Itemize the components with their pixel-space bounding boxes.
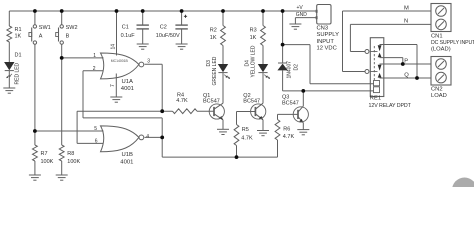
svg-text:U1B: U1B xyxy=(122,152,134,158)
svg-text:CN1: CN1 xyxy=(431,34,443,40)
svg-text:4.7K: 4.7K xyxy=(176,98,188,104)
svg-text:SW2: SW2 xyxy=(66,25,78,31)
svg-text:1K: 1K xyxy=(210,35,217,41)
svg-text:GREEN LED: GREEN LED xyxy=(212,56,218,85)
svg-text:R7: R7 xyxy=(41,151,48,157)
svg-text:Q: Q xyxy=(404,72,409,78)
svg-text:YELLOW LED: YELLOW LED xyxy=(250,45,256,77)
svg-text:12 VDC: 12 VDC xyxy=(317,46,337,52)
svg-text:1N4007: 1N4007 xyxy=(286,61,292,79)
svg-text:0.1uF: 0.1uF xyxy=(121,33,136,39)
svg-text:6: 6 xyxy=(95,139,98,145)
svg-text:4001: 4001 xyxy=(120,159,133,165)
svg-text:R2: R2 xyxy=(210,28,217,34)
svg-text:10uF/50V: 10uF/50V xyxy=(156,33,180,39)
svg-text:P: P xyxy=(404,58,408,64)
svg-text:4.7K: 4.7K xyxy=(241,136,253,142)
svg-text:R5: R5 xyxy=(242,127,249,133)
svg-text:1: 1 xyxy=(93,53,96,59)
svg-text:U1A: U1A xyxy=(122,79,134,85)
svg-text:D2: D2 xyxy=(293,64,299,71)
svg-text:BC547: BC547 xyxy=(282,100,299,106)
svg-text:C2: C2 xyxy=(160,25,167,31)
svg-text:7: 7 xyxy=(110,84,116,87)
svg-text:MC14001B: MC14001B xyxy=(111,59,129,63)
svg-text:3: 3 xyxy=(147,59,150,65)
svg-text:B: B xyxy=(66,34,70,40)
svg-text:4001: 4001 xyxy=(121,86,134,92)
svg-text:A: A xyxy=(39,34,43,40)
svg-text:D1: D1 xyxy=(15,53,22,59)
svg-text:1K: 1K xyxy=(15,34,22,40)
svg-text:100K: 100K xyxy=(41,159,54,165)
svg-text:C1: C1 xyxy=(122,25,129,31)
svg-text:R8: R8 xyxy=(67,151,74,157)
svg-text:R6: R6 xyxy=(283,127,290,133)
svg-text:2: 2 xyxy=(93,66,96,72)
svg-text:12V RELAY DPDT: 12V RELAY DPDT xyxy=(369,103,412,109)
svg-text:(LOAD): (LOAD) xyxy=(431,47,451,53)
svg-text:R1: R1 xyxy=(15,27,22,33)
svg-text:CN3: CN3 xyxy=(317,26,329,32)
svg-text:SUPPLY: SUPPLY xyxy=(317,32,340,38)
svg-text:14: 14 xyxy=(111,44,117,50)
svg-text:+V: +V xyxy=(297,5,304,11)
svg-text:RED LED: RED LED xyxy=(15,62,21,84)
svg-text:RE1: RE1 xyxy=(370,96,381,102)
svg-text:4.7K: 4.7K xyxy=(283,134,295,140)
svg-text:100K: 100K xyxy=(67,159,80,165)
svg-text:BC547: BC547 xyxy=(203,98,220,104)
svg-text:INPUT: INPUT xyxy=(317,39,335,45)
svg-text:M: M xyxy=(404,5,409,11)
svg-text:LOAD: LOAD xyxy=(431,93,447,99)
svg-text:DC SUPPLY INPUT: DC SUPPLY INPUT xyxy=(431,40,474,46)
svg-text:CN2: CN2 xyxy=(431,87,443,93)
svg-text:SW1: SW1 xyxy=(39,25,51,31)
svg-text:R3: R3 xyxy=(250,28,257,34)
svg-text:GND: GND xyxy=(296,12,308,18)
svg-text:BC547: BC547 xyxy=(243,98,260,104)
svg-text:5: 5 xyxy=(94,126,97,132)
svg-text:N: N xyxy=(404,19,408,25)
svg-text:1K: 1K xyxy=(250,35,257,41)
